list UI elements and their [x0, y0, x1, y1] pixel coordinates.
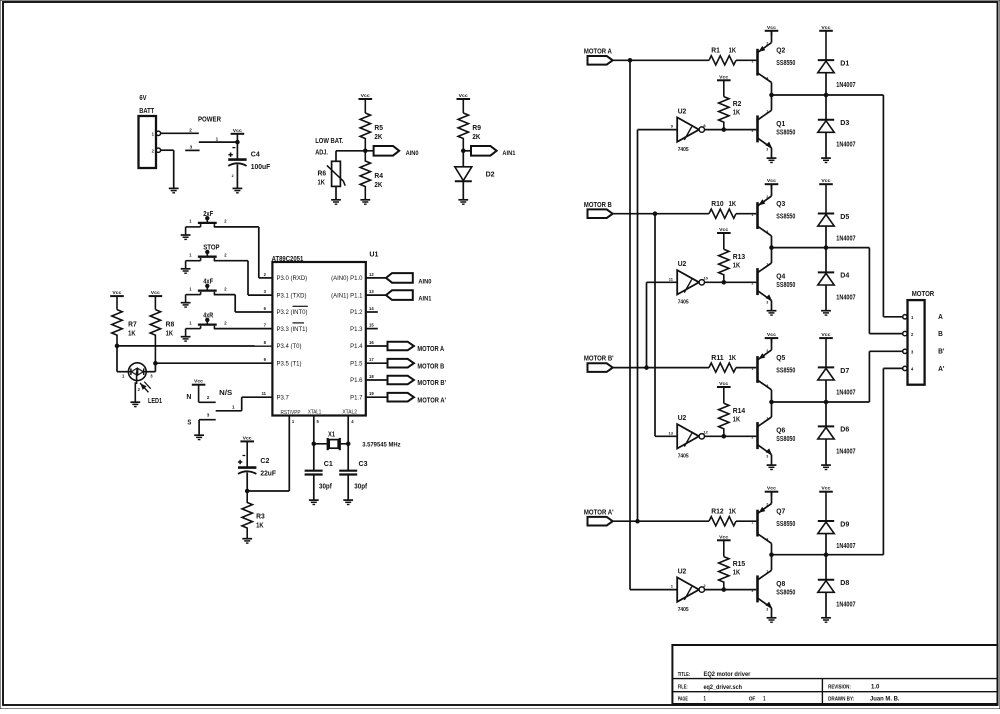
junction R8 / P3.5	[154, 361, 158, 365]
LED1 body circle	[128, 363, 146, 381]
svg-text:1K: 1K	[729, 509, 736, 516]
transistor Q4 SS8050 NPN	[756, 268, 759, 295]
switch 4xR ground	[185, 329, 187, 337]
tag MOTOR B input	[588, 209, 613, 218]
svg-text:1: 1	[704, 696, 707, 703]
switch 4xF contacts	[200, 292, 202, 295]
svg-text:S: S	[187, 419, 191, 426]
svg-text:R8: R8	[166, 320, 175, 329]
wire reset node to RST/VPP pin	[247, 490, 289, 492]
svg-text:4xR: 4xR	[203, 313, 213, 320]
resistor R15 pullup	[719, 557, 729, 590]
transistor Q8 emitter to ground	[771, 608, 773, 618]
svg-text:Vcc: Vcc	[112, 290, 121, 295]
ground LED1	[130, 401, 140, 403]
tag MOTOR A at U1	[388, 342, 414, 351]
svg-text:MOTOR B: MOTOR B	[584, 202, 612, 209]
transistor Q6 emitter to ground	[771, 455, 773, 465]
junction R7 / P3.4	[115, 344, 119, 348]
svg-text:1: 1	[216, 136, 219, 141]
svg-text:MOTOR A: MOTOR A	[584, 48, 612, 55]
svg-text:AIN0: AIN0	[406, 150, 419, 157]
switch STOP actuator bar	[198, 256, 217, 258]
svg-text:Vcc: Vcc	[151, 290, 160, 295]
svg-text:R3: R3	[256, 512, 265, 521]
svg-text:11: 11	[262, 391, 267, 396]
connector MOTOR pin 1	[903, 315, 907, 319]
transistor Q3 SS8550 PNP	[756, 202, 759, 229]
svg-text:1K: 1K	[256, 520, 264, 529]
svg-text:100uF: 100uF	[251, 162, 271, 171]
potentiometer R6 body	[332, 161, 341, 186]
svg-text:R15: R15	[733, 561, 746, 568]
svg-text:Vcc: Vcc	[821, 486, 830, 491]
svg-text:1: 1	[232, 405, 235, 410]
svg-text:P1.5: P1.5	[350, 361, 363, 367]
switch N/S pin 2 lead (N)	[199, 401, 216, 403]
svg-text:1K: 1K	[729, 201, 736, 208]
transistor Q6 SS8050 NPN	[756, 422, 759, 449]
diode D9 1N4007 flyback high	[818, 520, 834, 522]
wire MOTOR B line down to stage-3 inverter input	[654, 214, 656, 437]
transistor Q5 collector to output	[771, 390, 773, 402]
diode D3 1N4007 flyback low	[825, 95, 827, 120]
svg-text:MOTOR A: MOTOR A	[417, 346, 444, 353]
svg-text:19: 19	[369, 391, 374, 396]
svg-text:STOP: STOP	[203, 245, 220, 252]
svg-text:D2: D2	[486, 170, 495, 179]
wire MOTOR A line down to stage-4 inverter input	[629, 60, 631, 589]
svg-text:2: 2	[752, 129, 754, 133]
svg-text:7405: 7405	[678, 607, 689, 613]
switch 4xR actuator bar	[198, 323, 217, 325]
U1 INT0 overbar	[293, 305, 308, 307]
wire P1.7 to MOTOR A' tag	[366, 396, 388, 398]
svg-text:13: 13	[369, 289, 374, 294]
wire D6 anode to ground	[825, 439, 827, 465]
wire MOTOR B line to base resistor	[613, 213, 709, 215]
svg-text:7405: 7405	[678, 300, 689, 306]
svg-text:P1.6: P1.6	[350, 378, 363, 384]
junction XTAL2 / crystal	[346, 442, 350, 446]
connector MOTOR pin 4	[903, 366, 907, 370]
svg-text:Juan M. B.: Juan M. B.	[870, 696, 900, 703]
wire LED1 pin 2 to ground	[135, 372, 136, 402]
svg-text:P3.1 (TXD): P3.1 (TXD)	[277, 293, 307, 299]
wire P1.3 stub	[366, 328, 378, 330]
ground Q1 emitter	[767, 157, 777, 159]
junction XTAL1 / crystal	[312, 442, 316, 446]
diode D6 1N4007 flyback low	[825, 402, 827, 426]
junction R13 / base drive	[722, 281, 726, 285]
junction output node at transistors	[770, 246, 774, 250]
capacitor C2 plates	[238, 466, 256, 469]
svg-text:B': B'	[938, 347, 945, 356]
resistor R5	[360, 113, 370, 151]
svg-text:U2: U2	[678, 413, 687, 422]
junction C2 / R3 / RST	[245, 489, 249, 493]
svg-text:Vcc: Vcc	[361, 93, 370, 98]
svg-text:Q6: Q6	[776, 426, 785, 435]
svg-text:SS8550: SS8550	[776, 368, 795, 375]
tag MOTOR A' input	[588, 517, 613, 526]
svg-text:1K: 1K	[318, 177, 326, 186]
svg-text:U2: U2	[678, 107, 687, 116]
tag MOTOR A input	[588, 56, 613, 65]
svg-text:2K: 2K	[374, 132, 383, 141]
svg-text:3: 3	[766, 148, 768, 152]
junction R14 / base drive	[722, 435, 726, 439]
svg-text:R2: R2	[733, 101, 742, 108]
svg-text:C3: C3	[359, 459, 368, 468]
switch 4xF ground	[185, 295, 187, 303]
title block outer box	[672, 645, 997, 704]
wire STOP to P3.1	[214, 260, 248, 262]
wire D7 anode to output node	[825, 380, 827, 402]
transistor Q1 SS8050 NPN	[756, 115, 759, 142]
capacitor C1 plates	[305, 470, 323, 472]
wire output node MOTOR B drive	[772, 247, 870, 249]
svg-text:OF: OF	[749, 697, 756, 703]
svg-text:D6: D6	[840, 425, 849, 434]
wire MOTOR A' line to base resistor	[613, 520, 709, 522]
node AIN0 divider junction	[364, 149, 368, 153]
svg-text:3: 3	[766, 454, 768, 458]
svg-text:U1: U1	[369, 250, 378, 259]
svg-text:17: 17	[369, 357, 374, 362]
resistor R11	[709, 363, 736, 372]
svg-text:2: 2	[207, 395, 210, 400]
svg-text:12: 12	[703, 430, 708, 435]
wire output node MOTOR B' drive	[772, 401, 870, 403]
diode D2	[455, 167, 472, 181]
svg-text:Vcc: Vcc	[767, 178, 776, 183]
transistor Q6 collector to output	[771, 402, 773, 417]
wire 2xF to P3.0	[214, 226, 259, 228]
node AIN1 junction	[462, 149, 466, 153]
junction R2 / base drive	[722, 128, 726, 132]
svg-text:1: 1	[763, 696, 766, 703]
svg-text:1K: 1K	[729, 48, 736, 55]
ground D4	[821, 310, 831, 312]
tag MOTOR B' input	[588, 363, 613, 372]
tag AIN1	[471, 146, 497, 156]
svg-text:A': A'	[938, 364, 945, 373]
svg-text:D3: D3	[840, 118, 849, 127]
ground D3	[821, 157, 831, 159]
svg-text:1N4007: 1N4007	[836, 543, 855, 550]
svg-text:3: 3	[766, 300, 768, 304]
wire D2 to ground	[462, 181, 464, 199]
svg-text:R6: R6	[318, 168, 327, 177]
svg-text:PAGE: PAGE	[678, 697, 689, 703]
wire D8 anode to ground	[825, 592, 827, 618]
svg-text:14: 14	[369, 306, 374, 311]
svg-text:SS8050: SS8050	[776, 129, 795, 136]
svg-text:7405: 7405	[678, 147, 689, 153]
wire P1.2 stub	[366, 311, 378, 313]
svg-text:Vcc: Vcc	[719, 381, 728, 386]
svg-text:XTAL1: XTAL1	[308, 410, 321, 416]
svg-text:1N4007: 1N4007	[836, 236, 855, 243]
wire stage-2 inverter input from MOTOR B-prime line	[647, 281, 678, 283]
switch STOP ground	[185, 261, 187, 269]
svg-text:AIN1: AIN1	[502, 150, 515, 157]
capacitor C4 polarity marks	[232, 147, 235, 149]
diode D4 1N4007 flyback low	[825, 248, 827, 273]
ground R6	[331, 199, 341, 201]
wire XTAL2 pin down to C3	[347, 415, 349, 471]
wire R10 to Q3 base	[736, 213, 756, 215]
svg-text:DRAWN BY:: DRAWN BY:	[828, 697, 854, 703]
svg-text:12: 12	[369, 272, 374, 277]
svg-text:MOTOR A': MOTOR A'	[417, 397, 446, 404]
svg-text:1K: 1K	[733, 416, 740, 423]
svg-text:D7: D7	[840, 366, 849, 375]
op-amp U2 inverter 7405 (1-2)	[677, 577, 699, 601]
wire output node MOTOR A' drive	[772, 554, 884, 556]
svg-text:MOTOR B': MOTOR B'	[584, 356, 614, 363]
junction R15 / base drive	[722, 588, 726, 592]
wire R12 to Q7 base	[736, 520, 756, 522]
wire 4xF to P3.2	[214, 294, 235, 296]
svg-text:P1.2: P1.2	[350, 310, 363, 316]
switch N/S pin 3 lead (S)	[199, 419, 216, 421]
svg-text:1: 1	[766, 570, 768, 574]
svg-text:1: 1	[752, 367, 754, 371]
transistor Q2 collector to output	[771, 83, 773, 96]
svg-text:30pf: 30pf	[354, 483, 367, 490]
diode D5 1N4007 flyback high	[818, 213, 834, 215]
svg-text:13: 13	[669, 430, 674, 435]
crystal X1 leads	[314, 443, 327, 445]
svg-text:D8: D8	[840, 578, 849, 587]
resistor R13 pullup	[719, 249, 729, 282]
switch 2xF pin 1 lead	[186, 226, 201, 228]
svg-text:Vcc: Vcc	[233, 128, 242, 133]
svg-text:R14: R14	[733, 408, 746, 415]
op-amp U1 AT89C2051 body	[272, 262, 365, 416]
svg-text:16: 16	[369, 340, 374, 345]
wire battery pin2 down	[161, 149, 174, 151]
svg-text:TITLE:: TITLE:	[678, 672, 691, 678]
tag MOTOR B at U1	[388, 359, 414, 368]
tag AIN0 at U1	[386, 273, 413, 283]
wire D4 anode to ground	[825, 285, 827, 311]
ground D6	[821, 464, 831, 466]
svg-text:R12: R12	[711, 509, 724, 516]
transistor Q7 collector to output	[771, 543, 773, 554]
svg-text:B: B	[938, 329, 943, 338]
svg-text:R4: R4	[374, 171, 383, 180]
connector MOTOR body	[908, 300, 925, 385]
svg-text:1N4007: 1N4007	[836, 294, 855, 301]
svg-text:MOTOR: MOTOR	[912, 291, 935, 298]
switch 4xF pin 1 lead	[186, 294, 201, 296]
junction switch pin1 / Vcc / C4	[236, 140, 240, 144]
svg-text:AT89C2051: AT89C2051	[272, 254, 304, 263]
svg-text:1N4007: 1N4007	[836, 142, 855, 149]
svg-text:22uF: 22uF	[260, 469, 276, 478]
wire battery pin1 to POWER switch	[161, 132, 199, 134]
transistor Q1 emitter to ground	[771, 148, 773, 158]
svg-text:7405: 7405	[678, 454, 689, 460]
svg-text:MOTOR B: MOTOR B	[417, 363, 444, 370]
transistor Q8 SS8050 NPN	[756, 575, 759, 602]
connector MOTOR pin 2	[903, 331, 907, 335]
resistor R1	[709, 56, 736, 65]
svg-text:Vcc: Vcc	[767, 332, 776, 337]
svg-text:SS8550: SS8550	[776, 60, 795, 67]
ground R3	[242, 538, 252, 540]
wire P1.1 to AIN1 tag	[366, 294, 386, 296]
wire MOTOR B' line to base resistor	[613, 367, 709, 369]
svg-text:2K: 2K	[472, 132, 481, 141]
transistor Q5 emitter to Vcc	[771, 338, 773, 350]
title block divider lines	[672, 678, 997, 680]
resistor R9	[458, 113, 468, 151]
ground C3	[343, 499, 353, 501]
svg-text:3: 3	[766, 384, 768, 388]
junction MOTOR A-prime line inverter feed	[636, 519, 640, 523]
svg-text:SS8050: SS8050	[776, 589, 795, 596]
wire C4 to ground	[236, 164, 238, 188]
wire D5 anode to output node	[825, 226, 827, 248]
svg-text:Vcc: Vcc	[821, 25, 830, 30]
wire P1.0 to AIN0 tag	[366, 277, 386, 279]
svg-text:R9: R9	[472, 123, 481, 132]
ground Q8 emitter	[767, 617, 777, 619]
LED1 internal diodes	[129, 371, 147, 373]
wire N/S common to P3.7	[241, 397, 243, 411]
svg-text:3: 3	[766, 230, 768, 234]
svg-text:EQ2 motor driver: EQ2 motor driver	[704, 671, 751, 678]
tag MOTOR A' at U1	[388, 393, 414, 402]
svg-text:U2: U2	[678, 259, 687, 268]
svg-text:P3.5 (T1): P3.5 (T1)	[277, 361, 302, 367]
svg-text:2xF: 2xF	[203, 211, 214, 218]
junction MOTOR B-prime line inverter feed	[645, 366, 649, 370]
svg-text:R1: R1	[711, 48, 720, 55]
svg-text:1: 1	[766, 416, 768, 420]
wire D3 anode to ground	[825, 132, 827, 158]
wire P1.4 to MOTOR A tag	[366, 345, 388, 347]
svg-text:3: 3	[766, 608, 768, 612]
svg-text:2: 2	[766, 503, 768, 507]
svg-text:R11: R11	[711, 355, 723, 362]
svg-text:1N4007: 1N4007	[836, 602, 855, 609]
crystal X1 plates	[327, 438, 329, 450]
svg-text:6V: 6V	[139, 93, 146, 102]
transistor Q5 SS8550 PNP	[756, 356, 759, 383]
svg-text:Vcc: Vcc	[243, 435, 252, 440]
svg-text:1K: 1K	[128, 328, 136, 337]
svg-text:C4: C4	[251, 149, 261, 158]
transistor Q2 SS8550 PNP	[756, 49, 759, 76]
svg-text:R10: R10	[711, 201, 724, 208]
U1 INT1 overbar	[293, 322, 305, 324]
svg-text:1N4007: 1N4007	[836, 82, 855, 89]
svg-text:1: 1	[752, 213, 754, 217]
svg-text:MOTOR B': MOTOR B'	[417, 380, 446, 387]
wire C2 to reset node	[246, 472, 248, 491]
switch 2xF contacts	[200, 224, 202, 227]
wire D9 anode to output node	[825, 534, 827, 555]
svg-text:R5: R5	[374, 123, 383, 132]
svg-text:3: 3	[766, 77, 768, 81]
svg-text:SS8550: SS8550	[776, 214, 795, 221]
svg-text:N/S: N/S	[219, 390, 232, 397]
wire route to motor connector pin 4	[882, 368, 884, 554]
op-amp U2 inverter 7405 (11-10)	[677, 270, 699, 294]
svg-text:1K: 1K	[733, 110, 740, 117]
svg-text:1: 1	[752, 60, 754, 64]
switch 2xF ground	[185, 227, 187, 235]
svg-text:P3.4 (T0): P3.4 (T0)	[277, 344, 302, 350]
resistor R12	[709, 517, 736, 526]
resistor R3	[242, 491, 252, 538]
svg-text:Vcc: Vcc	[821, 178, 830, 183]
switch 4xF actuator bar	[198, 289, 217, 291]
svg-text:Vcc: Vcc	[719, 227, 728, 232]
switch POWER pin 3 lead	[185, 149, 199, 151]
connector MOTOR pin 3	[903, 349, 907, 353]
junction output node at diodes	[824, 400, 828, 404]
ground Q4 emitter	[767, 310, 777, 312]
wire R1 to Q2 base	[736, 59, 756, 61]
tag AIN0 at divider	[374, 146, 400, 156]
svg-text:2: 2	[752, 436, 754, 440]
capacitor C2 polarity marks	[243, 455, 246, 457]
wire 4xR to P3.3	[214, 328, 273, 330]
tag AIN1 at U1	[386, 290, 413, 300]
wire D1 anode to output node	[825, 73, 827, 95]
switch STOP pin 1 lead	[186, 260, 201, 262]
junction output node at transistors	[770, 553, 774, 557]
svg-text:(AIN0) P1.0: (AIN0) P1.0	[331, 276, 363, 282]
ground C1	[309, 499, 319, 501]
svg-text:P3.3 (INT1): P3.3 (INT1)	[277, 327, 308, 333]
svg-text:AIN1: AIN1	[418, 296, 431, 303]
ground battery	[169, 187, 179, 189]
svg-text:2: 2	[232, 174, 234, 178]
svg-text:Q4: Q4	[776, 272, 786, 281]
wire pot to AIN0 node	[336, 150, 374, 152]
svg-text:D9: D9	[840, 520, 849, 529]
capacitor C4 positive lead	[236, 142, 238, 159]
transistor Q1 collector to output	[771, 95, 773, 110]
svg-text:P3.0 (RXD): P3.0 (RXD)	[277, 276, 308, 282]
junction MOTOR A line to inverter feed	[628, 59, 632, 63]
ground C4	[233, 187, 243, 189]
svg-text:R7: R7	[128, 320, 137, 329]
wire U2 output to Q1 base	[705, 129, 757, 131]
svg-text:15: 15	[369, 323, 374, 328]
svg-text:A: A	[938, 312, 943, 321]
svg-text:2: 2	[752, 282, 754, 286]
junction output node at diodes	[824, 93, 828, 97]
wire U2 output to Q4 base	[705, 281, 757, 283]
ground R4	[360, 199, 370, 201]
wire C3 to ground	[347, 475, 349, 500]
wire route to motor connector pin 3	[868, 351, 870, 402]
wire R11 to Q5 base	[736, 367, 756, 369]
wire route to motor connector pin 1	[882, 95, 884, 317]
ground D2	[458, 199, 468, 201]
svg-text:LED1: LED1	[148, 398, 162, 405]
svg-text:3: 3	[207, 413, 210, 418]
transistor Q7 SS8550 PNP	[756, 510, 759, 537]
